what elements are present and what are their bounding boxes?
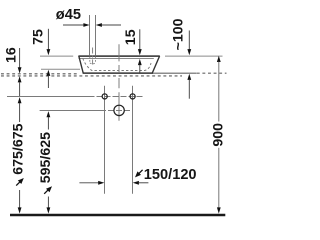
dimension 75 line top [47, 29, 49, 50]
tap hole hidden bottom arc [90, 62, 96, 65]
tap hole centerline [92, 48, 94, 65]
dimension 16 arrow bottom [18, 76, 22, 82]
countertop bottom surface dashed [1, 75, 182, 77]
tap hole hidden left edge [89, 57, 91, 63]
countertop top surface dashed (far right) [197, 72, 227, 74]
dimension 900 arrow top [217, 56, 221, 62]
dimension 675/675 arrow top [18, 97, 22, 103]
svg-text:15: 15 [123, 29, 139, 45]
right fixing hole circle [130, 94, 135, 99]
tap hole hidden right edge [95, 57, 97, 63]
dimension 15 line top [139, 29, 141, 50]
dimension 595/625 leader arrow [44, 190, 48, 194]
dimension 900 line bottom [218, 148, 220, 208]
dimension 15 arrow bottom [138, 59, 142, 65]
dimension 675/675 line bottom [19, 190, 21, 208]
dimension ø45 right arrow [96, 23, 102, 27]
countertop top surface dashed (left of basin) [1, 73, 79, 75]
washbasin rim second line [79, 58, 154, 60]
drain centerline through basin [118, 44, 120, 61]
left hole extension line down [104, 86, 106, 194]
svg-text:595/625: 595/625 [38, 132, 54, 183]
dimension 595/625 line bottom [47, 197, 49, 209]
drain center extension line [40, 110, 100, 112]
dimension ~100 arrow bottom [187, 74, 191, 80]
washbasin rim top line [78, 55, 159, 57]
svg-text:~100: ~100 [170, 18, 186, 50]
dimension 675/675 leader arrow [16, 182, 20, 186]
dimension ø45 edge line left [89, 15, 91, 55]
dimension 595/625 arrow top [47, 111, 51, 117]
washbasin bottom line [83, 72, 153, 74]
dimension 75 arrow bottom [47, 70, 51, 76]
dimension 150/120 left arrow [79, 182, 99, 184]
svg-text:16: 16 [4, 47, 20, 63]
dimension ø45 edge line right [95, 15, 97, 55]
dimension 16 line top [19, 48, 21, 68]
drain hole circle [114, 105, 124, 115]
dimension 150/120 right arrow [133, 181, 139, 185]
svg-text:675/675: 675/675 [10, 123, 26, 174]
svg-text:150/120: 150/120 [144, 167, 197, 183]
svg-text:900: 900 [210, 123, 226, 147]
rim extension line left [40, 55, 73, 57]
faucet holes center extension line [7, 96, 89, 98]
floor line [10, 214, 225, 216]
rim extension line right [165, 55, 223, 57]
dimension 150/120 leader arrow [139, 170, 143, 174]
bowl bottom extension line left [41, 68, 80, 70]
svg-text:ø45: ø45 [56, 7, 81, 23]
washbasin left slant wall [79, 56, 83, 73]
dimension ø45 left arrow [63, 24, 84, 26]
svg-text:75: 75 [30, 29, 46, 45]
dimension ~100 line top [188, 31, 190, 51]
right hole extension line down [132, 86, 134, 194]
left fixing hole circle [102, 94, 107, 99]
washbasin inner bowl hidden outline [83, 58, 151, 70]
countertop top surface solid (right of basin) [153, 72, 197, 74]
washbasin right slant wall [152, 56, 159, 73]
